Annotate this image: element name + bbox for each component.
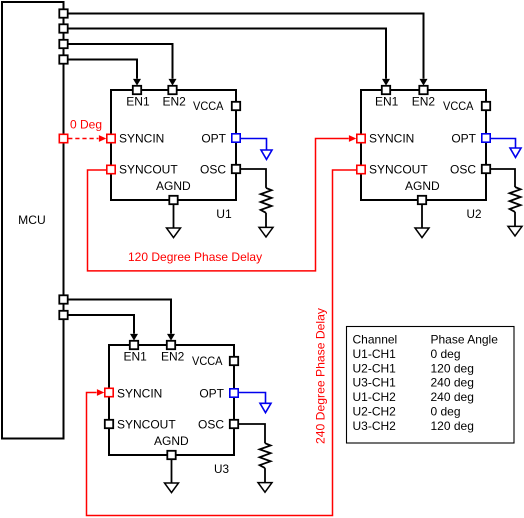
- U2 pin OSC: [482, 165, 490, 173]
- svg-text:SYNCIN: SYNCIN: [117, 387, 162, 401]
- svg-text:U1-CH2: U1-CH2: [353, 390, 397, 404]
- MCU pin 2 (EN wire 2): [59, 24, 67, 32]
- resistor R3 (U3 OSC): [260, 443, 271, 468]
- svg-text:EN2: EN2: [161, 350, 185, 364]
- wire U1 OSC to resistor: [240, 169, 266, 188]
- MCU pin 3 (EN wire 3): [59, 40, 67, 48]
- wire U2 SYNCOUT to U3 SYNCIN (240 degree delay, red): [87, 170, 357, 516]
- svg-text:U1: U1: [216, 207, 232, 221]
- U3 pin SYNCIN (red): [105, 388, 113, 396]
- svg-text:SYNCOUT: SYNCOUT: [369, 163, 428, 177]
- phase angle table: [347, 327, 515, 444]
- IC U3 body: [109, 345, 234, 455]
- IC U1 body: [111, 90, 236, 200]
- wire U3 AGND to ground: [171, 459, 173, 483]
- svg-text:U1-CH1: U1-CH1: [353, 347, 397, 361]
- svg-text:U2-CH1: U2-CH1: [353, 361, 397, 375]
- wire U2 OPT to ground (blue): [490, 139, 515, 149]
- svg-text:SYNCIN: SYNCIN: [119, 132, 164, 146]
- wire MCU pin6 to U3 EN2: [68, 300, 171, 334]
- U1 pin AGND: [169, 196, 177, 204]
- svg-text:AGND: AGND: [156, 179, 191, 193]
- wire resistor R3 to ground: [264, 468, 266, 483]
- U1 pin OSC: [232, 165, 240, 173]
- MCU pin 1 (EN wire 1): [59, 9, 67, 17]
- wire U3 OSC to resistor: [238, 424, 265, 443]
- U2 pin AGND: [418, 196, 426, 204]
- U1 pin SYNCIN (red): [107, 134, 115, 142]
- MCU block U0: [2, 2, 64, 439]
- svg-text:U2-CH2: U2-CH2: [353, 405, 397, 419]
- wire MCU pin2 to U2 EN1: [68, 29, 386, 79]
- MCU pin 7 (U3 EN1 wire): [59, 311, 67, 319]
- svg-text:0 Deg: 0 Deg: [70, 118, 102, 132]
- wire 0-deg sync MCU to U1 SYNCIN (red dashed): [68, 138, 98, 140]
- U3 pin OSC: [230, 420, 238, 428]
- svg-text:SYNCIN: SYNCIN: [369, 132, 414, 146]
- svg-text:120 deg: 120 deg: [431, 419, 474, 433]
- svg-text:120 Degree Phase Delay: 120 Degree Phase Delay: [128, 250, 262, 264]
- wire U2 AGND to ground: [421, 204, 423, 228]
- U3 pin AGND: [167, 451, 175, 459]
- svg-text:U3-CH2: U3-CH2: [353, 419, 397, 433]
- svg-text:OSC: OSC: [200, 163, 226, 177]
- ground symbol U3 OPT (blue): [260, 403, 271, 412]
- svg-text:OPT: OPT: [451, 132, 476, 146]
- MCU pin 4 (EN wire 4): [59, 55, 67, 63]
- svg-text:0 deg: 0 deg: [431, 405, 461, 419]
- svg-text:EN2: EN2: [412, 95, 436, 109]
- svg-text:OPT: OPT: [199, 387, 224, 401]
- U1 pin EN2: [168, 86, 176, 94]
- ground symbol U3 AGND: [165, 483, 179, 493]
- svg-text:OSC: OSC: [198, 418, 224, 432]
- ground symbol U1 OPT (blue): [261, 150, 272, 159]
- U1 pin SYNCOUT (red): [107, 165, 115, 173]
- U2 pin SYNCOUT (red): [357, 165, 365, 173]
- U3 pin VCCA: [230, 357, 238, 365]
- U3 pin SYNCOUT (black, unconnected): [105, 420, 113, 428]
- ground symbol U2 AGND: [415, 228, 429, 238]
- MCU pin SYNC 0-deg output (red): [59, 134, 67, 142]
- U3 pin EN2: [167, 341, 175, 349]
- resistor R2 (U2 OSC): [510, 187, 521, 212]
- svg-text:0 deg: 0 deg: [431, 347, 461, 361]
- U3 pin EN1: [130, 341, 138, 349]
- wire U1 AGND to ground: [173, 204, 175, 228]
- svg-text:Channel: Channel: [353, 333, 398, 347]
- svg-text:EN2: EN2: [163, 95, 187, 109]
- wire MCU pin1 to U2 EN2: [68, 14, 424, 79]
- svg-text:EN1: EN1: [124, 350, 148, 364]
- svg-text:OSC: OSC: [450, 163, 476, 177]
- U1 pin EN1: [133, 86, 141, 94]
- ground symbol U2 OPT (blue): [510, 148, 521, 157]
- wire U3 OPT to ground (blue): [238, 393, 265, 404]
- ground symbol R3: [258, 483, 272, 493]
- wire MCU pin4 to U1 EN1: [68, 60, 137, 79]
- svg-text:EN1: EN1: [126, 95, 150, 109]
- U1 pin OPT: [232, 134, 240, 142]
- resistor R1 (U1 OSC): [261, 188, 272, 213]
- svg-text:120 deg: 120 deg: [431, 361, 474, 375]
- svg-text:U3-CH1: U3-CH1: [353, 376, 397, 390]
- MCU pin 6 (U3 EN2 wire): [59, 295, 67, 303]
- svg-text:VCCA: VCCA: [192, 354, 223, 368]
- svg-text:SYNCOUT: SYNCOUT: [119, 163, 178, 177]
- wire U1 OPT to ground (blue): [240, 139, 266, 151]
- wire resistor R2 to ground: [514, 212, 516, 227]
- wire resistor R1 to ground: [265, 213, 267, 228]
- svg-text:VCCA: VCCA: [193, 99, 224, 113]
- svg-text:OPT: OPT: [201, 132, 226, 146]
- U2 pin EN2: [419, 86, 427, 94]
- U1 pin VCCA: [232, 102, 240, 110]
- svg-text:AGND: AGND: [154, 434, 189, 448]
- svg-text:VCCA: VCCA: [443, 99, 474, 113]
- ground symbol R1: [259, 227, 273, 237]
- IC U2 body: [361, 90, 486, 200]
- ground symbol U1 AGND: [167, 228, 181, 238]
- U2 pin EN1: [382, 86, 390, 94]
- svg-text:MCU: MCU: [18, 213, 46, 227]
- svg-text:SYNCOUT: SYNCOUT: [117, 418, 176, 432]
- U2 pin SYNCIN (red): [357, 134, 365, 142]
- svg-text:AGND: AGND: [405, 179, 440, 193]
- svg-text:Phase Angle: Phase Angle: [431, 333, 499, 347]
- svg-text:U2: U2: [467, 207, 482, 221]
- U2 pin OPT: [482, 134, 490, 142]
- svg-text:240 deg: 240 deg: [431, 376, 474, 390]
- wire U1 SYNCOUT to U2 SYNCIN (120 degree delay, red): [88, 139, 349, 271]
- wire MCU pin3 to U1 EN2: [68, 44, 173, 79]
- U3 pin OPT: [230, 389, 238, 397]
- svg-text:240 Degree Phase Delay: 240 Degree Phase Delay: [314, 308, 328, 444]
- wire U2 OSC to resistor: [490, 169, 515, 187]
- svg-text:EN1: EN1: [375, 95, 399, 109]
- svg-text:U3: U3: [214, 462, 229, 476]
- ground symbol R2: [508, 226, 522, 236]
- svg-text:240 deg: 240 deg: [431, 390, 474, 404]
- wire MCU pin7 to U3 EN1: [68, 315, 134, 334]
- U2 pin VCCA: [482, 102, 490, 110]
